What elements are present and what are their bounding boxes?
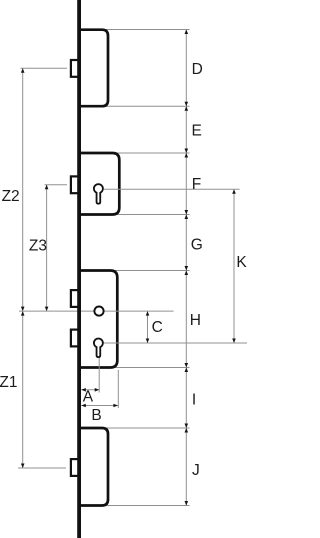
thin extension line right: top of main case [114, 270, 190, 272]
second lock case [78, 153, 120, 215]
svg-text:J: J [192, 462, 200, 479]
svg-text:K: K [236, 254, 247, 271]
extension line left: bottom latch centre [18, 467, 66, 469]
thin extension line right: bottom of main case [114, 367, 190, 369]
svg-text:E: E [192, 123, 202, 140]
arrowheads on B line [81, 404, 118, 408]
dimension line K vertical [233, 189, 235, 343]
extension line left: second latch centre [45, 184, 68, 186]
extension line: main keyhole centre to right edge [104, 342, 247, 344]
svg-text:A: A [83, 389, 94, 406]
svg-text:B: B [91, 407, 101, 424]
thin extension line right: top of second case [116, 152, 190, 154]
dimension line A horizontal [81, 389, 99, 391]
arrowheads on D-J dimension line [185, 30, 189, 506]
main case upper latch bolt [71, 290, 80, 307]
svg-text:H: H [190, 312, 201, 329]
svg-text:C: C [152, 319, 163, 336]
follower hole (circle) [94, 307, 103, 316]
extension line A vertical below keyhole [98, 358, 100, 393]
extension line F: from second keyhole to K line [104, 188, 240, 190]
svg-text:Z1: Z1 [0, 374, 17, 391]
arrowheads on Z3 line [45, 185, 49, 311]
top lock case [78, 30, 109, 107]
top latch bolt [71, 60, 80, 77]
dimension line D-J vertical [185, 30, 187, 506]
svg-text:Z3: Z3 [29, 238, 47, 255]
keyhole second case [94, 184, 103, 204]
thin extension line right: top of top case [105, 29, 190, 31]
dimension line C vertical [147, 311, 149, 343]
thin extension line right: bottom of bottom case [105, 505, 190, 507]
second latch bolt [71, 176, 80, 193]
svg-text:G: G [191, 237, 203, 254]
svg-text:D: D [192, 61, 203, 78]
svg-text:F: F [192, 176, 201, 193]
dimension line B horizontal [81, 405, 118, 407]
svg-text:Z2: Z2 [2, 188, 20, 205]
thin extension line right: bottom of top case [105, 105, 190, 107]
svg-text:I: I [192, 391, 196, 408]
keyhole main case [94, 338, 103, 357]
arrowheads on Z2/Z1 line [21, 68, 25, 468]
main case lower latch bolt [71, 330, 80, 347]
arrowheads on K line [232, 189, 236, 343]
arrowheads on C line [146, 311, 150, 343]
faceplate vertical bar [77, 0, 81, 538]
bottom lock case [78, 428, 109, 506]
extension line: follower centre long line [19, 310, 174, 312]
extension line B vertical below case right edge [117, 370, 119, 408]
arrowheads on A line [81, 388, 99, 392]
main lock case [78, 271, 118, 368]
bottom latch bolt [71, 459, 80, 476]
dimension line Z3 vertical [46, 185, 48, 311]
thin extension line right: top of bottom case [105, 427, 190, 429]
extension line left: top latch centre [21, 67, 68, 69]
thin extension line right: bottom of second case [116, 214, 190, 216]
dimension line Z2/Z1 vertical [22, 68, 24, 468]
